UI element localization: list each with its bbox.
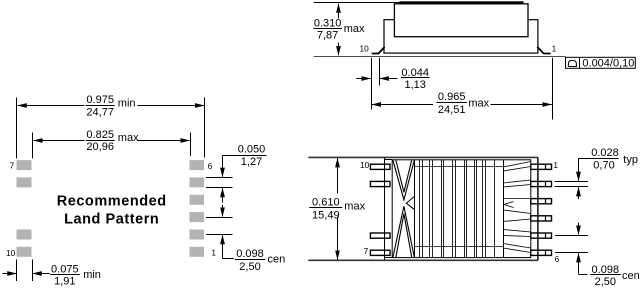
svg-text:24,77: 24,77: [86, 106, 114, 118]
svg-text:1: 1: [552, 43, 557, 53]
svg-text:0.075: 0.075: [51, 263, 79, 275]
svg-text:20,96: 20,96: [86, 141, 114, 153]
dimension 0.975/24,77 min: [18, 105, 85, 107]
seating plane line: [314, 56, 566, 58]
svg-text:1,13: 1,13: [404, 79, 425, 91]
land pad pin 8: [17, 177, 32, 187]
top view lead pin 2: [531, 181, 552, 186]
X flexure pattern (left section): [414, 160, 416, 258]
svg-text:typ: typ: [623, 154, 638, 166]
top view lead pin 5: [531, 233, 552, 238]
svg-text:24,51: 24,51: [438, 104, 466, 116]
dimension 0.028/0,70 typ lead width: [555, 181, 588, 183]
top view lead pin 7: [370, 250, 390, 255]
svg-text:1: 1: [553, 160, 558, 170]
left gull-wing lead foot: [372, 47, 385, 54]
dimension 0.825/20,96 max: [33, 140, 84, 142]
dimension 0.098/2,50 cen pad pitch: [206, 217, 233, 219]
dimension 0.310/7,87 max height: [338, 4, 340, 19]
svg-text:10: 10: [6, 248, 16, 258]
X center chevron: [406, 196, 414, 209]
land pad pin 10: [17, 247, 32, 257]
svg-text:Land Pattern: Land Pattern: [64, 212, 159, 228]
ladder pattern verticals (middle section): [419, 160, 421, 258]
svg-text:10: 10: [359, 44, 369, 54]
svg-text:0.610: 0.610: [312, 196, 340, 208]
svg-text:6: 6: [208, 161, 213, 171]
svg-text:min: min: [118, 97, 136, 109]
svg-text:max: max: [118, 132, 139, 144]
svg-text:1,91: 1,91: [54, 276, 75, 288]
side view upper can body: [394, 4, 528, 37]
extension lines 0.044 / 0.965: [371, 58, 373, 110]
svg-text:7,87: 7,87: [317, 30, 338, 42]
svg-text:0.975: 0.975: [86, 94, 114, 106]
svg-text:2,50: 2,50: [595, 276, 616, 288]
top view lead pin 1: [531, 164, 552, 169]
land pad pin 1: [190, 247, 205, 257]
top view body top edge (outer, extends left): [308, 156, 538, 158]
svg-text:1,27: 1,27: [241, 156, 262, 168]
dimension 0.610/15,49 max body width: [337, 158, 339, 193]
land pad pin 5: [190, 177, 205, 187]
extension lines, land pattern: [16, 98, 18, 159]
side view lid (black): [399, 1, 523, 4]
svg-text:0,70: 0,70: [593, 159, 614, 171]
svg-text:max: max: [468, 97, 489, 109]
svg-text:max: max: [344, 23, 365, 35]
land pad pin 6: [190, 160, 205, 170]
dimension 0.098/2,50 cen lead pitch (top view): [555, 235, 588, 237]
side view package base: [384, 20, 538, 53]
top view lead pin 8: [370, 233, 390, 238]
dimension 0.965/24,51 max overall: [372, 104, 433, 106]
svg-text:7: 7: [364, 246, 369, 256]
top view inner substrate box: [392, 160, 531, 258]
ladder rails: [415, 166, 503, 168]
top view lead pin 3: [531, 199, 552, 204]
right gull-wing lead foot: [537, 47, 550, 54]
svg-text:0.028: 0.028: [591, 147, 619, 159]
land pad pin 2: [190, 230, 205, 240]
svg-text:1: 1: [211, 248, 216, 258]
svg-text:6: 6: [555, 254, 560, 264]
dimension 0.075/1,91 min pad width: [3, 273, 17, 275]
svg-text:10: 10: [360, 160, 370, 170]
land pad pin 7: [17, 160, 32, 170]
flatness dome symbol: [568, 61, 576, 67]
land pad pin 9: [17, 230, 32, 240]
land pad pin 4: [190, 195, 205, 205]
top view lead pin 4: [531, 216, 552, 221]
svg-text:cen: cen: [268, 253, 286, 265]
svg-text:Recommended: Recommended: [57, 194, 167, 210]
top view lead pin 9: [370, 181, 390, 186]
svg-text:0.965: 0.965: [438, 91, 466, 103]
svg-text:15,49: 15,49: [312, 209, 340, 221]
svg-text:min: min: [83, 269, 101, 281]
dimension 0.044/1,13 foot length: [356, 78, 371, 80]
flatness callout box 0.004/0,10: [566, 57, 636, 68]
svg-text:0.310: 0.310: [314, 17, 342, 29]
fan-out trace section (right): [503, 160, 505, 258]
fan chevron: [504, 202, 514, 208]
svg-text:0.825: 0.825: [86, 129, 114, 141]
svg-text:cen: cen: [622, 270, 640, 282]
top view lead pin 6: [531, 250, 552, 255]
svg-text:0.098: 0.098: [236, 248, 264, 260]
svg-text:0.050: 0.050: [238, 144, 266, 156]
top view body walls: [384, 157, 386, 260]
svg-text:0.004/0,10: 0.004/0,10: [582, 57, 634, 69]
top view lead pin 10: [370, 164, 390, 169]
dimension 0.050/1,27 pad height: [206, 177, 233, 179]
land pad pin 3: [190, 212, 205, 222]
svg-text:7: 7: [10, 161, 15, 171]
svg-text:max: max: [344, 201, 365, 213]
top view body bottom edge (outer, extends left): [308, 259, 538, 261]
top reference line: [314, 2, 400, 4]
svg-text:2,50: 2,50: [239, 261, 260, 273]
